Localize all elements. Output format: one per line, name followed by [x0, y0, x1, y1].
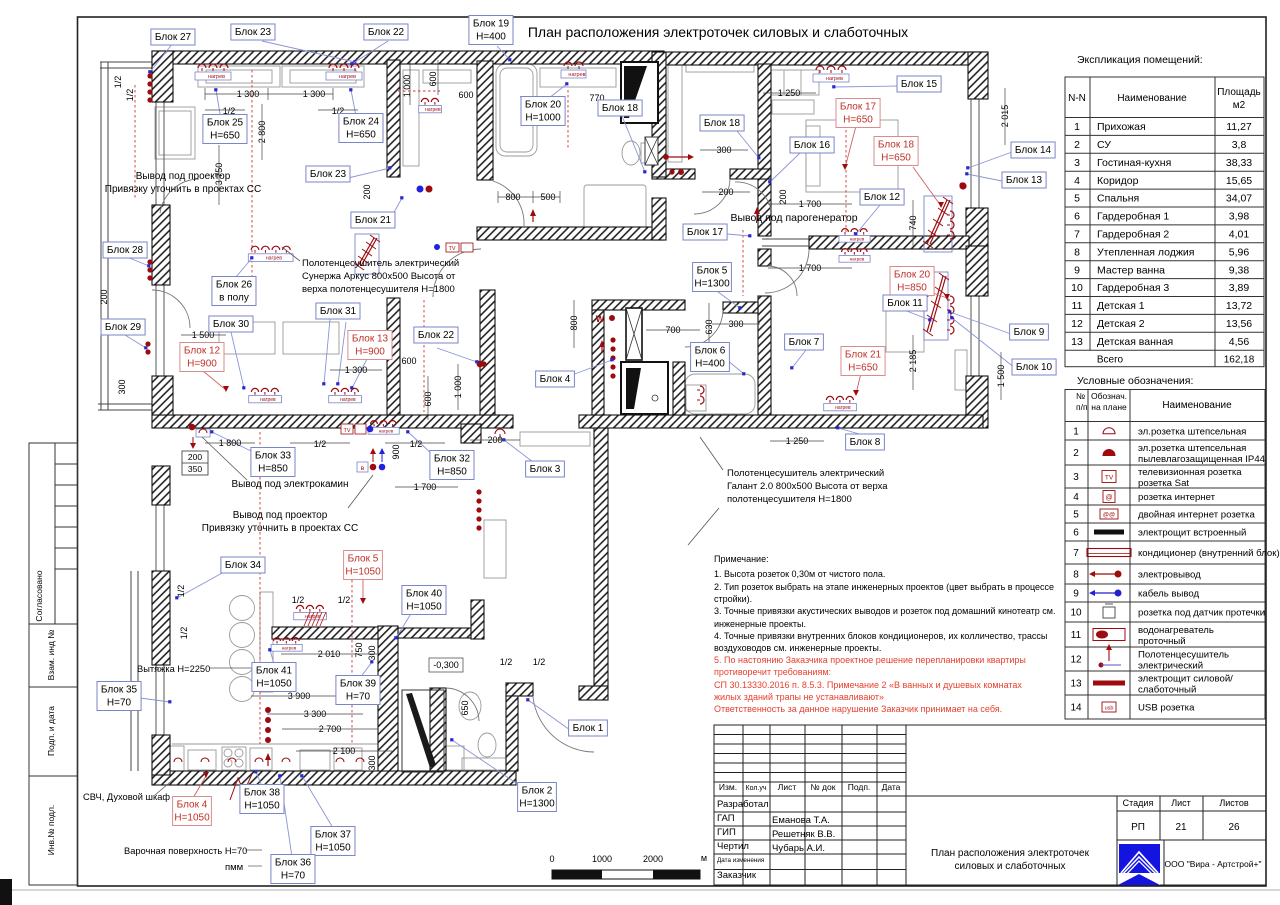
svg-text:стройки).: стройки).	[714, 594, 752, 604]
svg-text:2: 2	[1073, 448, 1079, 459]
svg-text:Наименование: Наименование	[1162, 400, 1232, 411]
svg-text:Н=650: Н=650	[848, 363, 878, 374]
label Блок 22b	[414, 327, 458, 343]
svg-text:Листов: Листов	[1219, 798, 1248, 808]
leader Блок 32	[408, 432, 432, 454]
label Блок 18a	[598, 100, 642, 116]
leader Блок 33	[212, 432, 253, 452]
wall: master bath bottom band	[477, 227, 664, 240]
svg-text:Блок 22: Блок 22	[418, 330, 455, 341]
svg-text:Блок 32: Блок 32	[434, 454, 471, 465]
svg-text:Прихожая: Прихожая	[1097, 121, 1146, 133]
svg-text:жилых зданий трапы не устанавл: жилых зданий трапы не устанавливают»	[714, 692, 884, 702]
svg-text:Блок 18: Блок 18	[704, 118, 741, 129]
svg-text:600: 600	[401, 356, 416, 366]
socket group top bath sink	[419, 98, 442, 113]
svg-text:электрический: электрический	[1138, 661, 1203, 672]
svg-text:Экспликация помещений:: Экспликация помещений:	[1077, 54, 1203, 66]
svg-text:Блок 11: Блок 11	[887, 298, 923, 309]
svg-text:200: 200	[778, 189, 788, 204]
svg-text:300: 300	[367, 755, 377, 770]
svg-text:Полотенцесушитель электрически: Полотенцесушитель электрический	[302, 258, 459, 269]
svg-text:Блок 5: Блок 5	[348, 554, 379, 565]
leader Блок 27	[150, 43, 173, 72]
wall: bottom band left wing	[152, 771, 516, 785]
socket dots laundry wall	[610, 337, 615, 378]
leader Блок 19	[497, 46, 510, 60]
svg-text:@: @	[1105, 495, 1112, 502]
towel radiator children2	[923, 272, 949, 340]
furniture: children room 2	[886, 310, 924, 352]
svg-text:300: 300	[117, 379, 127, 394]
svg-text:Блок 22: Блок 22	[368, 27, 405, 38]
svg-text:Условные обозначения:: Условные обозначения:	[1077, 375, 1193, 387]
svg-text:Вывод под проектор: Вывод под проектор	[233, 510, 328, 521]
svg-text:7: 7	[1073, 548, 1079, 559]
red fixture near Блок 3	[495, 429, 505, 434]
svg-text:Н=70: Н=70	[107, 698, 132, 709]
svg-text:Чертил: Чертил	[717, 841, 749, 852]
svg-text:5: 5	[1074, 193, 1080, 205]
socket group kitchen b	[271, 638, 302, 652]
svg-text:15,65: 15,65	[1226, 175, 1252, 187]
svg-text:8: 8	[1073, 570, 1079, 581]
svg-text:Н=1050: Н=1050	[174, 813, 210, 824]
svg-text:розетка под датчик протечки: розетка под датчик протечки	[1138, 608, 1265, 619]
leader Блок 40	[396, 612, 412, 638]
socket row corridor tv	[839, 229, 870, 243]
socket column child bath	[697, 386, 704, 404]
svg-text:Блок 41: Блок 41	[256, 666, 293, 677]
wall: master bath left wall	[477, 61, 493, 180]
svg-text:13,72: 13,72	[1226, 300, 1252, 312]
svg-text:СП 30.13330.2016 п. 8.5.3. При: СП 30.13330.2016 п. 8.5.3. Примечание 2 …	[714, 680, 1022, 690]
svg-text:Дата изменения: Дата изменения	[717, 857, 764, 864]
svg-text:Взам. инд №: Взам. инд №	[46, 630, 56, 681]
wall: top-left corner block	[152, 51, 173, 102]
svg-text:650: 650	[460, 700, 470, 715]
svg-text:нагрев: нагрев	[379, 429, 394, 434]
svg-text:TV: TV	[1105, 475, 1114, 482]
svg-text:Н=70: Н=70	[346, 692, 371, 703]
leader Блок 31	[338, 322, 346, 384]
svg-text:Блок 5: Блок 5	[697, 266, 728, 277]
leader Блок 12	[856, 205, 880, 234]
red dot corridor2	[678, 169, 684, 175]
svg-text:нагрев: нагрев	[826, 76, 843, 82]
label Блок 12	[860, 189, 904, 205]
svg-text:Решетняк В.В.: Решетняк В.В.	[772, 829, 835, 840]
projector node living: box	[357, 462, 368, 472]
svg-text:5. По настоянию Заказчика прое: 5. По настоянию Заказчика проектное реше…	[714, 655, 1026, 665]
svg-text:Н=900: Н=900	[355, 347, 385, 358]
red arrow kitchen	[265, 753, 271, 766]
leader Блок 30	[231, 332, 244, 388]
svg-text:Утепленная лоджия: Утепленная лоджия	[1097, 246, 1194, 258]
svg-text:Гардеробная 3: Гардеробная 3	[1097, 282, 1169, 294]
svg-text:Чубарь А.И.: Чубарь А.И.	[772, 843, 825, 854]
svg-text:инженерные проекты.: инженерные проекты.	[714, 619, 806, 629]
svg-text:Обознач.: Обознач.	[1091, 391, 1127, 401]
svg-text:Блок 12: Блок 12	[184, 346, 221, 357]
svg-text:900: 900	[391, 444, 401, 459]
svg-text:№: №	[1076, 391, 1085, 401]
svg-text:5,96: 5,96	[1229, 246, 1250, 258]
label Блок 14	[1011, 142, 1055, 158]
red socket laundry	[609, 315, 615, 321]
svg-text:проточный: проточный	[1138, 636, 1186, 647]
wall: bedroom left wall upper	[758, 64, 771, 171]
svg-text:12: 12	[1070, 655, 1082, 666]
socket group room1 left	[195, 64, 231, 80]
label Блок 5R	[344, 551, 383, 580]
svg-text:9: 9	[1074, 264, 1080, 276]
svg-text:750: 750	[354, 642, 364, 657]
label Блок 31	[316, 303, 360, 319]
svg-text:3,89: 3,89	[1229, 282, 1250, 294]
furniture: master bath	[496, 64, 537, 156]
svg-text:3: 3	[1073, 472, 1079, 483]
socket group kitchen a	[294, 605, 327, 620]
svg-text:розетка интернет: розетка интернет	[1138, 492, 1216, 503]
leader to projector text	[348, 475, 373, 508]
svg-text:Блок 18: Блок 18	[602, 103, 639, 114]
svg-text:Блок 4: Блок 4	[177, 800, 208, 811]
svg-text:Блок 15: Блок 15	[901, 79, 938, 90]
svg-text:1000: 1000	[592, 854, 612, 864]
svg-text:1: 1	[1073, 426, 1079, 437]
socket dots left wall b	[145, 341, 150, 354]
svg-text:Н=1000: Н=1000	[525, 113, 561, 124]
svg-text:РП: РП	[1131, 822, 1145, 833]
svg-text:9: 9	[1073, 589, 1079, 600]
wall: right wall segment 3	[966, 376, 988, 428]
wall: left wall segment d	[152, 735, 170, 775]
svg-text:Разработал: Разработал	[717, 799, 769, 810]
svg-text:Привязку уточнить в проектах С: Привязку уточнить в проектах СС	[105, 184, 261, 195]
svg-text:электровывод: электровывод	[1138, 570, 1201, 581]
svg-text:Блок 6: Блок 6	[695, 346, 726, 357]
svg-text:нагрев: нагрев	[339, 74, 356, 80]
svg-text:Н=1050: Н=1050	[315, 843, 351, 854]
label Блок 17R	[836, 99, 880, 128]
label Блок 2	[518, 783, 557, 812]
svg-text:Еманова Т.А.: Еманова Т.А.	[772, 815, 830, 826]
tv box room1 floor	[446, 243, 459, 252]
wall: hall vertical piece	[471, 600, 484, 639]
leader Блок 9	[950, 312, 1011, 334]
svg-text:Площадь: Площадь	[1217, 87, 1261, 98]
svg-text:W: W	[596, 314, 605, 324]
wall: children2 left wall bottom	[758, 296, 771, 415]
svg-text:2000: 2000	[643, 854, 663, 864]
svg-text:Блок 21: Блок 21	[845, 350, 882, 361]
svg-text:Блок 29: Блок 29	[105, 322, 142, 333]
svg-text:Спальня: Спальня	[1097, 193, 1139, 205]
svg-text:13: 13	[1070, 679, 1082, 690]
svg-text:Блок 24: Блок 24	[343, 117, 380, 128]
leader Блок 20 bath	[549, 84, 567, 98]
leader Блок 2	[452, 740, 519, 785]
leader Блок 37	[302, 776, 333, 828]
svg-text:Полотенцесушитель электрически: Полотенцесушитель электрический	[727, 468, 884, 479]
red dumbbell corridor	[663, 154, 694, 160]
svg-text:26: 26	[1228, 822, 1240, 833]
svg-text:1/2: 1/2	[125, 89, 135, 102]
legend sym electro panel	[1094, 530, 1124, 535]
label Блок 29	[101, 319, 145, 335]
svg-text:6: 6	[1074, 211, 1080, 223]
svg-text:Н=1300: Н=1300	[519, 799, 555, 810]
projector node living: dots	[370, 464, 377, 471]
red glyphs hob	[230, 774, 252, 800]
label Блок 13	[1002, 172, 1046, 188]
svg-text:1/2: 1/2	[410, 439, 423, 449]
svg-text:№ док: № док	[811, 782, 836, 792]
electrocamin arrow	[190, 437, 196, 449]
svg-text:Привязку уточнить в проектах С: Привязку уточнить в проектах СС	[202, 523, 358, 534]
svg-text:@@: @@	[1103, 513, 1115, 519]
wall: mid-left band	[152, 415, 513, 428]
red leader Блок 17R	[845, 126, 856, 168]
socket dots balcony wall top	[147, 73, 152, 102]
svg-text:13,56: 13,56	[1226, 318, 1252, 330]
legend sym leak sensor	[1103, 607, 1115, 618]
label Блок 8	[846, 434, 885, 450]
leader Блок 41	[270, 650, 274, 664]
legend sym cable out	[1089, 590, 1122, 597]
label Блок 20 bath	[521, 97, 565, 126]
svg-text:1/2: 1/2	[179, 627, 189, 640]
label Блок 12R	[180, 343, 224, 372]
svg-text:Гардеробная 2: Гардеробная 2	[1097, 229, 1169, 241]
svg-text:11,27: 11,27	[1226, 121, 1252, 133]
leader Блок 38	[256, 772, 262, 786]
svg-text:Лист: Лист	[778, 782, 797, 792]
svg-text:4,56: 4,56	[1229, 336, 1250, 348]
svg-text:Блок 17: Блок 17	[840, 102, 877, 113]
washing machine (black)	[621, 362, 668, 414]
svg-text:Блок 21: Блок 21	[355, 215, 392, 226]
label Блок 9	[1010, 324, 1049, 340]
svg-text:Мастер ванна: Мастер ванна	[1097, 264, 1165, 276]
svg-text:Вывод под проектор: Вывод под проектор	[136, 171, 231, 182]
svg-text:п/п: п/п	[1076, 402, 1088, 412]
svg-text:1/2: 1/2	[533, 657, 546, 667]
dim 200/350 boxed	[182, 451, 208, 475]
red arrow laundry	[599, 340, 605, 353]
wall: kitchen divider band	[272, 627, 398, 639]
svg-text:3. Точные привязки акустически: 3. Точные привязки акустических выводов …	[714, 606, 1055, 616]
leader Блок 7	[792, 350, 806, 368]
label Блок 1	[569, 720, 608, 736]
svg-text:Блок 1: Блок 1	[573, 723, 604, 734]
svg-text:нагрев: нагрев	[850, 257, 865, 262]
svg-text:6: 6	[1073, 528, 1079, 539]
svg-text:Блок 39: Блок 39	[340, 679, 377, 690]
svg-text:в: в	[361, 465, 365, 472]
svg-text:5: 5	[1073, 510, 1079, 521]
socket dot right wall	[959, 182, 964, 187]
svg-text:нагрев: нагрев	[568, 72, 585, 78]
svg-text:Блок 13: Блок 13	[1006, 175, 1043, 186]
label Блок 3	[526, 461, 565, 477]
svg-text:Вывод под парогенератор: Вывод под парогенератор	[730, 212, 857, 224]
svg-text:Блок 40: Блок 40	[406, 589, 443, 600]
label Блок 26	[212, 277, 256, 306]
leader Блок 13b	[352, 357, 368, 388]
towel radiator bedroom	[923, 196, 953, 252]
svg-text:Блок 30: Блок 30	[213, 319, 250, 330]
door arcs	[152, 179, 809, 752]
leader Блок 21b	[392, 198, 402, 216]
svg-text:воздуховодов см. инженерные пр: воздуховодов см. инженерные проекты.	[714, 643, 881, 653]
svg-text:Лист: Лист	[1171, 798, 1191, 808]
socket group room1 bed2	[329, 388, 362, 403]
label Блок 24	[339, 114, 383, 143]
label Блок 25	[203, 115, 247, 144]
wall: left wall segment b	[152, 466, 170, 505]
red arrow kitchen island	[433, 595, 439, 608]
corner printing mark	[0, 879, 12, 905]
wall: stub near laundry	[723, 302, 758, 313]
legend sym socket	[1103, 428, 1115, 434]
svg-text:Примечание:: Примечание:	[714, 554, 769, 564]
shower cabin (black)	[621, 62, 658, 123]
label Блок 6	[691, 343, 730, 372]
svg-text:0: 0	[549, 854, 554, 864]
title block	[714, 725, 1266, 885]
wall: corridor vertical wall	[594, 428, 608, 686]
svg-text:нагрев: нагрев	[340, 397, 356, 403]
label Блок 13b	[348, 331, 392, 360]
svg-text:Н=650: Н=650	[843, 115, 873, 126]
socket dot corridor b	[669, 169, 674, 174]
leader Блок 31	[324, 319, 330, 384]
wall: master bath right wall lower	[652, 198, 666, 240]
socket group master bath	[561, 62, 586, 78]
svg-text:14: 14	[1070, 703, 1082, 714]
svg-text:TV: TV	[448, 246, 455, 252]
svg-text:12: 12	[1071, 318, 1083, 330]
svg-text:200: 200	[188, 452, 202, 462]
wall: guest bath top stub	[506, 683, 533, 696]
svg-text:Блок 38: Блок 38	[244, 788, 281, 799]
leader Блок 10	[952, 318, 1015, 368]
svg-text:Н=650: Н=650	[346, 130, 376, 141]
svg-text:Блок 27: Блок 27	[155, 32, 192, 43]
legend sym power panel	[1093, 681, 1125, 686]
svg-text:Кол.уч: Кол.уч	[746, 785, 767, 792]
svg-text:Блок 7: Блок 7	[789, 337, 820, 348]
svg-text:пылевлагозащищенная IP44: пылевлагозащищенная IP44	[1138, 454, 1266, 465]
svg-text:9,38: 9,38	[1229, 264, 1250, 276]
furniture: entry hall cabinet	[520, 432, 590, 446]
svg-text:TV: TV	[343, 428, 350, 434]
svg-text:Гардеробная 1: Гардеробная 1	[1097, 211, 1169, 223]
svg-text:СУ: СУ	[1097, 139, 1111, 151]
label Блок 22 top	[364, 24, 408, 40]
electrocamin box	[196, 429, 210, 437]
furniture: child bathroom tub	[685, 374, 755, 414]
svg-text:Стадия: Стадия	[1123, 798, 1154, 808]
scale bar	[549, 853, 707, 879]
svg-text:3: 3	[1074, 157, 1080, 169]
leader Блок 13	[967, 174, 1007, 182]
label Блок 21b	[351, 212, 395, 228]
label Блок 4R	[173, 797, 212, 826]
red hatch cluster kitchen	[304, 612, 326, 626]
label Блок 38	[240, 785, 284, 814]
svg-text:кондиционер (внутренний блок): кондиционер (внутренний блок)	[1138, 548, 1280, 559]
wall: left wall segment c	[152, 571, 170, 665]
svg-text:Блок 8: Блок 8	[850, 437, 881, 448]
legend sym tv	[1102, 471, 1116, 483]
svg-text:Блок 25: Блок 25	[207, 118, 244, 129]
note: electro fireplace	[202, 437, 247, 480]
label Блок 21R	[841, 347, 885, 376]
label Блок 19	[469, 16, 513, 45]
leader Блок 39	[360, 662, 372, 678]
tall cabinet with X	[626, 308, 642, 360]
svg-text:Блок 2: Блок 2	[522, 786, 553, 797]
furniture: guest WC	[459, 692, 481, 720]
label Блок 10	[1012, 359, 1056, 375]
svg-text:нагрев: нагрев	[208, 74, 225, 80]
svg-text:полотенцесушителя Н=1800: полотенцесушителя Н=1800	[727, 494, 852, 505]
label Блок 28	[103, 242, 147, 258]
svg-text:Блок 14: Блок 14	[1015, 145, 1052, 156]
balcony outer walls (thin)	[98, 62, 155, 771]
label Блок 5c	[693, 263, 732, 292]
svg-text:телевизионная розетка: телевизионная розетка	[1138, 467, 1242, 478]
svg-text:Н=850: Н=850	[897, 283, 927, 294]
door opening children2	[762, 238, 809, 240]
furniture: bedroom	[766, 70, 819, 95]
svg-text:2: 2	[1074, 139, 1080, 151]
svg-text:Блок 19: Блок 19	[473, 19, 510, 30]
svg-text:Блок 9: Блок 9	[1014, 327, 1045, 338]
svg-text:11: 11	[1072, 300, 1083, 312]
svg-text:38,33: 38,33	[1226, 157, 1252, 169]
svg-text:Блок 13: Блок 13	[352, 334, 389, 345]
svg-text:N-N: N-N	[1068, 93, 1086, 104]
svg-text:600: 600	[428, 71, 438, 86]
svg-text:Детская 2: Детская 2	[1097, 318, 1145, 330]
legend sym usb	[1102, 702, 1116, 712]
svg-text:Блок 26: Блок 26	[216, 280, 253, 291]
svg-text:Детская ванная: Детская ванная	[1097, 336, 1173, 348]
red dashed electrical traces	[135, 70, 846, 744]
svg-text:Н=1300: Н=1300	[694, 279, 730, 290]
svg-text:силовых и слаботочных: силовых и слаботочных	[955, 860, 1066, 872]
projector node living: arrows	[370, 448, 385, 462]
leader Блок 15	[834, 86, 899, 87]
wall: top band right	[664, 52, 988, 65]
svg-text:-0,300: -0,300	[433, 660, 459, 670]
svg-text:8: 8	[1074, 246, 1080, 258]
leader Блок 28	[127, 257, 149, 266]
svg-text:1/2: 1/2	[113, 76, 123, 89]
svg-text:Н=650: Н=650	[210, 131, 240, 142]
svg-text:электрощит силовой/: электрощит силовой/	[1138, 674, 1233, 685]
label Блок 23b	[306, 166, 350, 182]
left stamp column	[29, 443, 78, 885]
guest bath door leaf (black)	[406, 693, 436, 768]
wall: left wall segment a	[152, 205, 170, 285]
leader Блок 8	[838, 428, 863, 435]
svg-text:2. Тип розеток выбрать на этап: 2. Тип розеток выбрать на этапе инженерн…	[714, 582, 1054, 592]
